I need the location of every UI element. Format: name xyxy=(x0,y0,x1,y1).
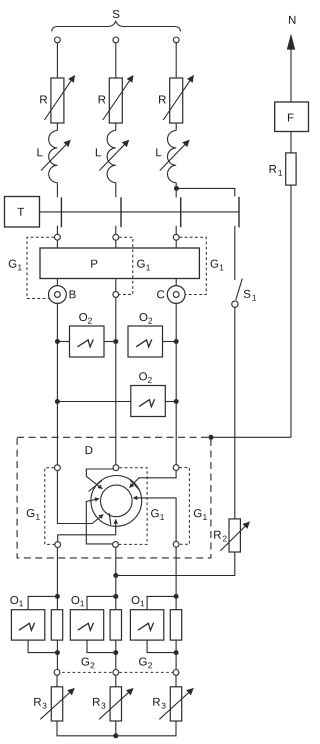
brush wire W1 from terminal1 xyxy=(57,471,103,524)
wire R to L phase3 xyxy=(175,123,177,131)
wire phase2 terminal to R xyxy=(115,43,117,78)
contact bar phase1 xyxy=(60,197,62,227)
wire phase3 tap to S1 branch xyxy=(176,188,234,196)
contact bar phase3 xyxy=(180,197,182,227)
label G1 right (P section) xyxy=(211,260,224,271)
wire bar to terminal phase1 xyxy=(56,226,58,234)
label G1 left (D section) xyxy=(27,509,40,520)
brush wire W3 from terminal3 xyxy=(130,471,177,488)
frequency box F xyxy=(275,102,309,132)
O1 unit 2: top rail xyxy=(87,596,116,609)
wire D corner to right riser xyxy=(211,436,291,438)
wire O2 box2 right xyxy=(163,341,177,343)
machine terminal top phase1 xyxy=(55,465,61,471)
terminal G2 phase3 xyxy=(173,670,179,676)
O1 unit 2: bottom rail xyxy=(87,640,116,653)
junction dot O2 row1 phase3 xyxy=(174,339,179,344)
wire O1 resistor stub top 3 xyxy=(175,596,177,609)
label G1 middle (P section) xyxy=(137,260,150,271)
wire B to O2 row xyxy=(56,303,58,464)
terminal above P phase1 xyxy=(55,234,61,240)
O1 box 3 xyxy=(130,596,163,640)
wire bottom terminal1 down xyxy=(56,548,58,597)
shunt resistor 3 xyxy=(170,610,181,640)
wire terminal to P phase1 xyxy=(56,240,58,248)
junction dot O2 row1 phase1 xyxy=(55,339,60,344)
label G1 right (D section) xyxy=(194,509,207,520)
label G1 left (P section) xyxy=(9,260,22,271)
contact bar phase2 xyxy=(120,197,122,227)
node S label xyxy=(113,10,120,18)
junction dot O1 top 3 xyxy=(174,594,179,599)
wire terminal to P phase3 xyxy=(175,241,177,249)
commutator machine outer circle xyxy=(91,476,142,527)
commutator machine inner circle xyxy=(101,485,133,517)
O1 unit 3: bottom rail xyxy=(147,640,176,653)
junction dot O1 top 2 xyxy=(113,594,118,599)
dashed bracket G1 left (P section) xyxy=(27,237,54,298)
dashed link G2 xyxy=(57,671,176,673)
wire G2 to R3 phase2 xyxy=(115,676,117,687)
switch S1 xyxy=(232,226,256,307)
wire F to R1 xyxy=(290,132,292,153)
dashed enclosure D xyxy=(17,437,211,558)
wire S1 to R2 xyxy=(234,307,236,519)
contact bar S1 branch xyxy=(238,197,240,228)
wire R to L phase1 xyxy=(56,123,58,131)
junction dot D box corner xyxy=(208,435,213,440)
wire phase2 to D section xyxy=(115,298,117,465)
terminal G2 phase2 xyxy=(113,670,119,676)
O1 unit 1: bottom rail xyxy=(28,640,57,653)
resistor R (phase2) xyxy=(99,76,133,123)
dashed bracket G1 right (D section) xyxy=(179,468,189,545)
junction dot O1 bottom 1 xyxy=(55,650,60,655)
transformer box T xyxy=(5,197,40,228)
O2 box 3 xyxy=(131,372,166,416)
resistor R (phase3) xyxy=(159,76,193,123)
brush bar bottom xyxy=(109,513,111,525)
arrow to N xyxy=(287,34,295,103)
wire G2 to R3 phase3 xyxy=(175,676,177,687)
supply terminal phase1 xyxy=(55,37,61,43)
junction dot O1 top 1 xyxy=(55,594,60,599)
wire C to O2 row xyxy=(175,303,177,464)
dashed inner machine box xyxy=(45,468,147,545)
shunt resistor 1 xyxy=(51,610,62,640)
O1 box 2 xyxy=(70,596,103,640)
wire terminal to P phase2 xyxy=(115,241,117,249)
dashed bracket G1 middle (P section) xyxy=(119,237,133,294)
brush wire W4 to bottom terminal phase2 xyxy=(86,499,112,544)
wire bus xyxy=(40,211,240,213)
rheostat R3 phase2 xyxy=(93,687,133,721)
junction dot O2 row2 phase3 xyxy=(174,399,179,404)
terminal above P phase3 xyxy=(173,234,179,240)
junction dot O1 bottom 2 xyxy=(113,650,118,655)
label G2 left xyxy=(81,657,94,668)
wire phase1 terminal to R xyxy=(56,43,58,78)
wire R2 to phase2 xyxy=(116,552,235,576)
junction dot bottom rail xyxy=(113,733,118,738)
junction dot O2 row1 phase2 xyxy=(113,339,118,344)
resistor R1 xyxy=(270,153,297,185)
shunt resistor 2 xyxy=(110,610,121,640)
brush wire W5 to bottom terminal phase1 xyxy=(58,520,116,542)
wire R3 phase2 to rail xyxy=(115,721,117,736)
wire R to L phase2 xyxy=(115,123,117,131)
wire O2 box3 right xyxy=(165,401,176,403)
wire O1 resistor stub top 1 xyxy=(56,596,58,609)
wire O1 resistor stub bottom 3 xyxy=(175,640,177,672)
inductor L (phase3) xyxy=(156,131,189,183)
label G1 middle (D section) xyxy=(151,509,164,520)
wire L to dot phase3 xyxy=(175,183,177,198)
wire O1 resistor stub bottom 1 xyxy=(56,640,58,672)
wire L to contact bar phase2 xyxy=(115,183,117,198)
terminal G2 phase1 xyxy=(54,670,60,676)
resistor R (phase1) xyxy=(40,76,74,123)
wire O1 resistor stub bottom 2 xyxy=(115,640,117,672)
dashed bracket G1 right (P section) xyxy=(179,237,206,294)
wire bar to terminal phase2 xyxy=(115,226,117,234)
brush bar upper-right xyxy=(130,480,139,490)
machine terminal top phase3 xyxy=(173,465,179,471)
brush wire W6 to bottom terminal phase3 xyxy=(133,498,176,541)
rheostat R3 phase1 xyxy=(34,687,74,721)
wire bottom terminal3 down xyxy=(175,548,177,597)
supply terminal phase2 xyxy=(113,37,119,43)
terminal above P phase2 xyxy=(113,234,119,240)
inductor L (phase1) xyxy=(37,131,70,183)
wire P to middle terminal xyxy=(115,279,117,292)
label D xyxy=(86,446,93,454)
machine terminal top phase2 xyxy=(113,465,119,471)
wire O2 box1 left xyxy=(57,341,69,343)
wire P to C terminal xyxy=(175,279,177,286)
wire bar to terminal phase3 xyxy=(175,226,177,234)
O2 box 1 xyxy=(70,313,105,357)
wire bottom rail xyxy=(57,721,176,736)
terminal below P phase2 xyxy=(113,292,119,298)
junction dot O2 row2 phase1 xyxy=(55,399,60,404)
terminal C xyxy=(157,286,185,304)
junction dot O1 bottom 3 xyxy=(174,650,179,655)
wire bottom terminal2 down xyxy=(115,548,117,597)
brush bar upper-left xyxy=(89,481,103,492)
terminal B xyxy=(49,286,76,304)
wire L to contact bar phase1 xyxy=(56,183,58,198)
O2 box 2 xyxy=(128,313,163,357)
brace over supply terminals xyxy=(52,21,181,31)
wire G2 to R3 phase1 xyxy=(56,676,58,687)
machine terminal bottom phase2 xyxy=(113,542,119,548)
machine terminal bottom phase1 xyxy=(55,542,61,548)
brush wire W2 from terminal2 xyxy=(86,469,113,489)
O1 unit 3: top rail xyxy=(147,596,176,609)
wire P to B terminal xyxy=(56,279,58,286)
wire O1 resistor stub top 2 xyxy=(115,596,117,609)
machine terminal bottom phase3 xyxy=(173,541,179,547)
wire right riser xyxy=(290,185,292,437)
rheostat R3 phase3 xyxy=(153,687,193,721)
inductor L (phase2) xyxy=(96,131,129,183)
node tap on phase3 xyxy=(174,186,179,191)
O1 unit 1: top rail xyxy=(28,596,57,609)
rheostat R2 xyxy=(214,519,249,552)
supply terminal phase3 xyxy=(173,37,179,43)
wire O2 box1 right xyxy=(104,341,116,343)
label N xyxy=(289,16,295,24)
label G2 right xyxy=(139,657,152,668)
wire phase3 terminal to R xyxy=(175,43,177,78)
O1 box 1 xyxy=(10,596,44,640)
wire O2 row2 left xyxy=(57,401,130,403)
junction dot R2 wire phase2 xyxy=(113,573,118,578)
regulator box P xyxy=(40,248,199,279)
